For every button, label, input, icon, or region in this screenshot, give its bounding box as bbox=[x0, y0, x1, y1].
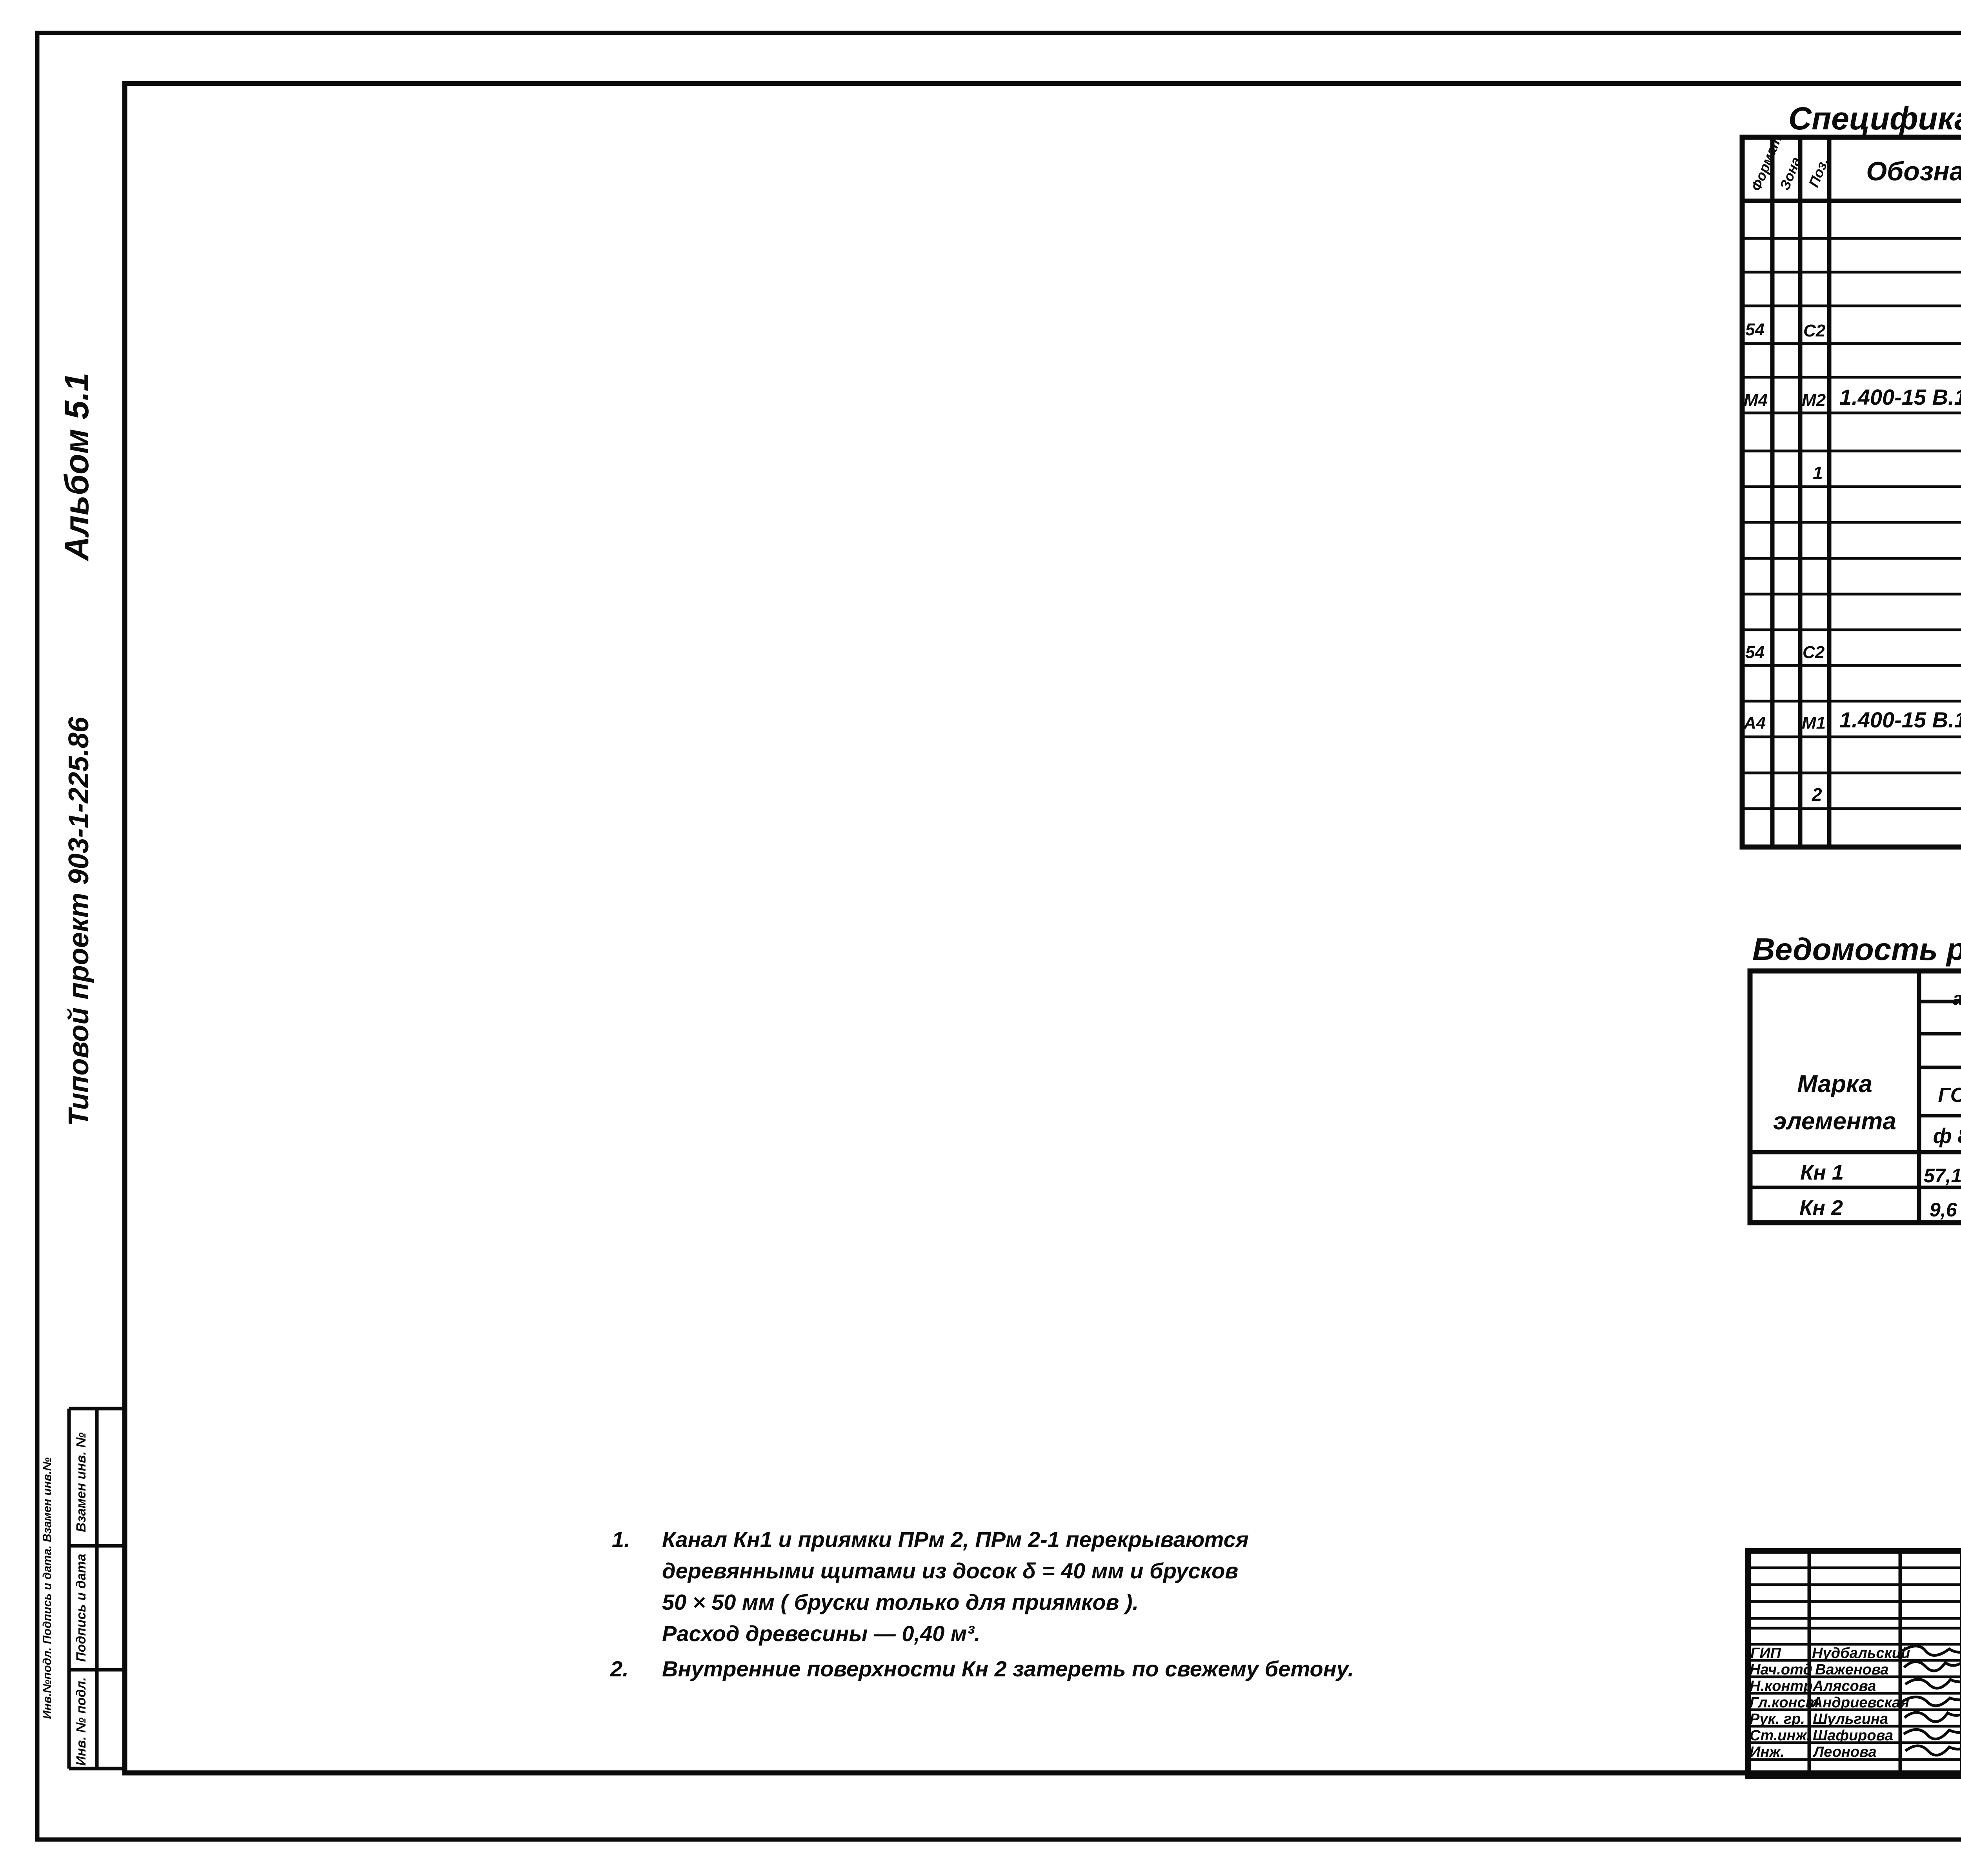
svg-text:ф 8: ф 8 bbox=[1933, 1124, 1961, 1148]
signature area verticals bbox=[1809, 1551, 1961, 1776]
svg-text:Марка: Марка bbox=[1797, 1071, 1872, 1098]
svg-text:54: 54 bbox=[1745, 320, 1765, 339]
svg-text:Внутренние поверхности Кн 2: Внутренние поверхности Кн 2 затереть по … bbox=[662, 1656, 1354, 1681]
svg-text:Андриевская: Андриевская bbox=[1812, 1694, 1909, 1711]
svg-text:Шульгина: Шульгина bbox=[1813, 1711, 1888, 1727]
left stamp rotated labels bbox=[74, 1432, 89, 1766]
svg-text:М4: М4 bbox=[1744, 391, 1768, 410]
svg-text:Кн 2: Кн 2 bbox=[1799, 1196, 1843, 1220]
steel table data bbox=[1799, 1161, 1961, 1221]
svg-text:2.: 2. bbox=[610, 1656, 629, 1681]
svg-text:Кн 1: Кн 1 bbox=[1800, 1161, 1844, 1184]
svg-text:Альбом 5.1: Альбом 5.1 bbox=[58, 373, 96, 562]
title block outer bbox=[1748, 1551, 1961, 1776]
svg-text:Ст.инж.: Ст.инж. bbox=[1750, 1727, 1811, 1744]
svg-text:Леонова: Леонова bbox=[1812, 1744, 1877, 1760]
svg-text:1.400-15 В.1. 540 -09: 1.400-15 В.1. 540 -09 bbox=[1839, 707, 1961, 732]
svg-text:57,15: 57,15 bbox=[1924, 1165, 1961, 1187]
spec body texts bbox=[1743, 207, 1961, 809]
svg-text:Шафирова: Шафирова bbox=[1813, 1727, 1893, 1744]
svg-text:1: 1 bbox=[1813, 463, 1823, 483]
left margin stamp table bbox=[69, 1409, 125, 1769]
steel table outer border bbox=[1750, 971, 1961, 1223]
svg-text:1.400-15 В.1 550 -05: 1.400-15 В.1 550 -05 bbox=[1839, 385, 1961, 409]
signature area rows bbox=[1748, 1568, 1961, 1760]
steel table header horizontals bbox=[1919, 1000, 1961, 1003]
svg-text:Нудбальский: Нудбальский bbox=[1812, 1645, 1910, 1661]
svg-text:Типовой проект 903-1-225.86: Типовой проект 903-1-225.86 bbox=[63, 716, 95, 1126]
svg-text:Алясова: Алясова bbox=[1812, 1678, 1876, 1694]
svg-text:Важенова: Важенова bbox=[1815, 1661, 1888, 1678]
svg-text:2: 2 bbox=[1812, 784, 1822, 805]
spec header texts bbox=[1748, 133, 1961, 193]
svg-text:М2: М2 bbox=[1802, 391, 1826, 410]
svg-text:Н.контр: Н.контр bbox=[1750, 1678, 1812, 1694]
svg-text:54: 54 bbox=[1745, 643, 1765, 662]
spec table column lines bbox=[1772, 137, 1961, 847]
svg-text:Расход древесины — 0,40 м: Расход древесины — 0,40 м³. bbox=[662, 1621, 980, 1646]
svg-text:ГИП: ГИП bbox=[1750, 1645, 1781, 1661]
svg-text:элемента: элемента bbox=[1773, 1108, 1896, 1135]
steel table body horizontals bbox=[1750, 1150, 1961, 1154]
svg-text:С2: С2 bbox=[1803, 321, 1826, 340]
steel table verticals bbox=[1917, 971, 1921, 1223]
svg-text:Взамен инв. №: Взамен инв. № bbox=[74, 1432, 89, 1532]
svg-text:Инж.: Инж. bbox=[1750, 1744, 1785, 1760]
svg-text:9,6: 9,6 bbox=[1930, 1199, 1957, 1221]
svg-text:Нач.отд: Нач.отд bbox=[1750, 1661, 1812, 1678]
svg-text:А4: А4 bbox=[1743, 713, 1766, 733]
svg-text:арматурные: арматурные bbox=[1953, 988, 1961, 1009]
spec table outer border bbox=[1742, 137, 1961, 847]
svg-text:М1: М1 bbox=[1802, 713, 1826, 733]
svg-text:Канал Кн1 и приямки ПРм 2,: Канал Кн1 и приямки ПРм 2, ПРм 2-1 перек… bbox=[662, 1527, 1249, 1552]
svg-text:Рук. гр.: Рук. гр. bbox=[1750, 1711, 1805, 1727]
svg-text:50 × 50 мм ( бруски только: 50 × 50 мм ( бруски только для приямков … bbox=[662, 1590, 1139, 1614]
svg-text:Спецификация на Кн1, Кн2: Спецификация на Кн1, Кн2 bbox=[1788, 101, 1961, 136]
svg-text:ГОСТ 5781 - 82: ГОСТ 5781 - 82 bbox=[1938, 1084, 1961, 1107]
svg-text:Обозначение: Обозначение bbox=[1866, 156, 1961, 186]
svg-text:Инв.№подл. Подпись и дата. Вза: Инв.№подл. Подпись и дата. Взамен инв.№ bbox=[41, 1457, 54, 1719]
spec table header row line bbox=[1742, 199, 1961, 203]
svg-text:С2: С2 bbox=[1803, 643, 1825, 662]
svg-text:Инв. № подл.: Инв. № подл. bbox=[74, 1677, 89, 1766]
svg-text:деревянными щитами из досок: деревянными щитами из досок δ = 40 мм и … bbox=[662, 1558, 1238, 1583]
signatures squiggles bbox=[1902, 1641, 1961, 1755]
spec table row lines bbox=[1742, 238, 1961, 809]
svg-text:Гл.конст: Гл.конст bbox=[1750, 1694, 1819, 1711]
svg-text:Ведомость расхода стали на эл: Ведомость расхода стали на элемент, кг bbox=[1752, 932, 1961, 967]
svg-text:Подпись и дата: Подпись и дата bbox=[74, 1554, 89, 1662]
steel table header texts bbox=[1773, 972, 1961, 1151]
svg-text:1.: 1. bbox=[612, 1527, 630, 1552]
signature rows texts bbox=[1750, 1645, 1910, 1760]
